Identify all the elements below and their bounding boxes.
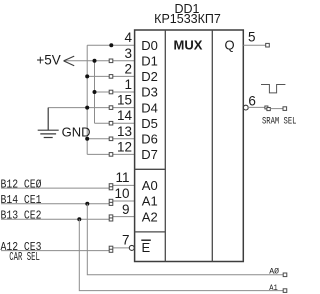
svg-text:B12 CEØ: B12 CEØ xyxy=(1,179,42,192)
junction dot CE2 to A1 drop xyxy=(77,217,81,221)
wire +5V vertical bus xyxy=(94,61,96,123)
svg-text:11: 11 xyxy=(115,170,129,185)
wire CE2 drop to A1 line xyxy=(79,219,283,290)
svg-text:D5: D5 xyxy=(141,116,158,131)
svg-text:3: 3 xyxy=(124,46,132,61)
wire link to pin10 A1 xyxy=(113,200,135,202)
inversion bubble pin6 xyxy=(243,105,248,110)
ground wire to GND bus xyxy=(48,107,87,109)
junction dot CE1 to A0 drop xyxy=(85,202,89,206)
wire CE1 drop to A0 line xyxy=(87,204,283,275)
svg-text:10: 10 xyxy=(114,186,129,201)
IC section divider above E xyxy=(135,231,166,233)
IC internal divider right column xyxy=(211,30,213,262)
svg-text:D4: D4 xyxy=(141,100,158,115)
power +5V arrow symbol xyxy=(64,56,75,66)
inversion bubble pin7 xyxy=(129,245,134,250)
wire pin5 Q output xyxy=(243,44,265,46)
svg-text:SRAM SEL: SRAM SEL xyxy=(262,116,297,128)
svg-text:КР1533КП7: КР1533КП7 xyxy=(154,12,221,26)
waveform negative pulse symbol xyxy=(261,85,285,93)
jumper link pin10 xyxy=(109,199,113,205)
svg-text:D2: D2 xyxy=(141,69,158,84)
wire CE3 to link pin7 xyxy=(1,250,109,252)
svg-text:E: E xyxy=(142,240,151,255)
wire pin13 D6 from GND bus to IC xyxy=(87,138,134,140)
svg-text:MUX: MUX xyxy=(174,38,203,53)
IC section divider under D7 xyxy=(135,168,166,170)
terminal square SRAM SEL xyxy=(283,107,287,111)
terminal square A0 xyxy=(283,273,287,277)
svg-text:D0: D0 xyxy=(141,38,158,53)
wire pin12 D7 from GND bus to IC xyxy=(87,153,134,155)
svg-text:12: 12 xyxy=(117,139,132,154)
svg-text:2: 2 xyxy=(124,61,132,76)
terminal square A1 xyxy=(283,289,287,293)
svg-text:D1: D1 xyxy=(141,53,158,68)
wire pin4 D0 from GND bus to IC xyxy=(87,44,134,46)
solder link square pin14 xyxy=(109,121,113,125)
solder link square pin13 xyxy=(109,137,113,141)
terminal square pin5 xyxy=(266,43,270,47)
svg-text:A1: A1 xyxy=(269,283,278,293)
wire +5V rail into pin3 D1 xyxy=(64,60,135,62)
junction dot GND bus at pin15 xyxy=(85,106,89,110)
jumper link pin7 xyxy=(109,246,113,252)
solder link square pin15 xyxy=(109,106,113,110)
wire link to pin7 E bubble xyxy=(113,247,130,249)
IC internal divider left column xyxy=(164,30,166,262)
wire CE1 to link pin10 xyxy=(1,203,109,205)
jumper link pin6 xyxy=(265,106,270,111)
wire pin1 D3 from +5V bus to IC xyxy=(95,91,135,93)
svg-text:Q: Q xyxy=(224,38,234,53)
svg-text:CAR SEL: CAR SEL xyxy=(9,251,40,264)
wire GND vertical bus xyxy=(86,45,88,154)
svg-text:15: 15 xyxy=(117,93,132,108)
svg-text:9: 9 xyxy=(122,202,130,217)
svg-text:A0: A0 xyxy=(142,178,158,193)
svg-text:+5V: +5V xyxy=(36,52,60,67)
svg-text:14: 14 xyxy=(117,108,133,123)
junction dot pin4 link xyxy=(109,43,113,47)
svg-text:D6: D6 xyxy=(141,131,158,146)
wire pin6 jumper to terminal xyxy=(270,108,283,110)
solder link square pin2 xyxy=(109,75,113,79)
ground symbol xyxy=(38,108,59,138)
wire pin14 D5 from +5V bus to IC xyxy=(95,122,135,124)
svg-text:1: 1 xyxy=(124,77,132,92)
wire pin15 D4 from GND bus to IC xyxy=(87,107,134,109)
wire CE2 to link pin9 xyxy=(1,218,109,220)
svg-text:4: 4 xyxy=(124,30,132,45)
svg-text:A2: A2 xyxy=(142,209,158,224)
svg-text:A1: A1 xyxy=(142,194,158,209)
svg-text:6: 6 xyxy=(248,93,256,108)
svg-text:B13 CE2: B13 CE2 xyxy=(1,210,42,223)
svg-text:5: 5 xyxy=(248,30,256,45)
jumper link pin11 xyxy=(109,184,113,190)
solder link square pin1 xyxy=(109,90,113,94)
junction dot GND bus at pin13 xyxy=(85,137,89,141)
wire pin2 D2 from GND bus to IC xyxy=(87,75,134,77)
svg-text:AØ: AØ xyxy=(269,267,279,277)
wire link to pin11 A0 xyxy=(113,184,135,186)
svg-text:D3: D3 xyxy=(141,85,158,100)
IC DD1 body outline xyxy=(135,30,244,262)
jumper link pin9 xyxy=(109,215,113,221)
svg-text:13: 13 xyxy=(117,124,132,139)
wire link to pin9 A2 xyxy=(113,216,135,218)
junction dot +5V bus at pin1 xyxy=(93,90,97,94)
solder link square pin12 xyxy=(109,153,113,157)
wire pin6 to jumper xyxy=(248,106,265,108)
solder link square pin3 xyxy=(109,59,113,63)
junction dot +5V bus at pin3 xyxy=(93,59,97,63)
svg-text:7: 7 xyxy=(122,233,130,248)
svg-text:D7: D7 xyxy=(141,147,158,162)
junction dot GND bus at pin2 xyxy=(85,74,89,78)
svg-text:B14 CE1: B14 CE1 xyxy=(1,194,42,207)
wire CE0 to link pin11 xyxy=(1,187,109,189)
